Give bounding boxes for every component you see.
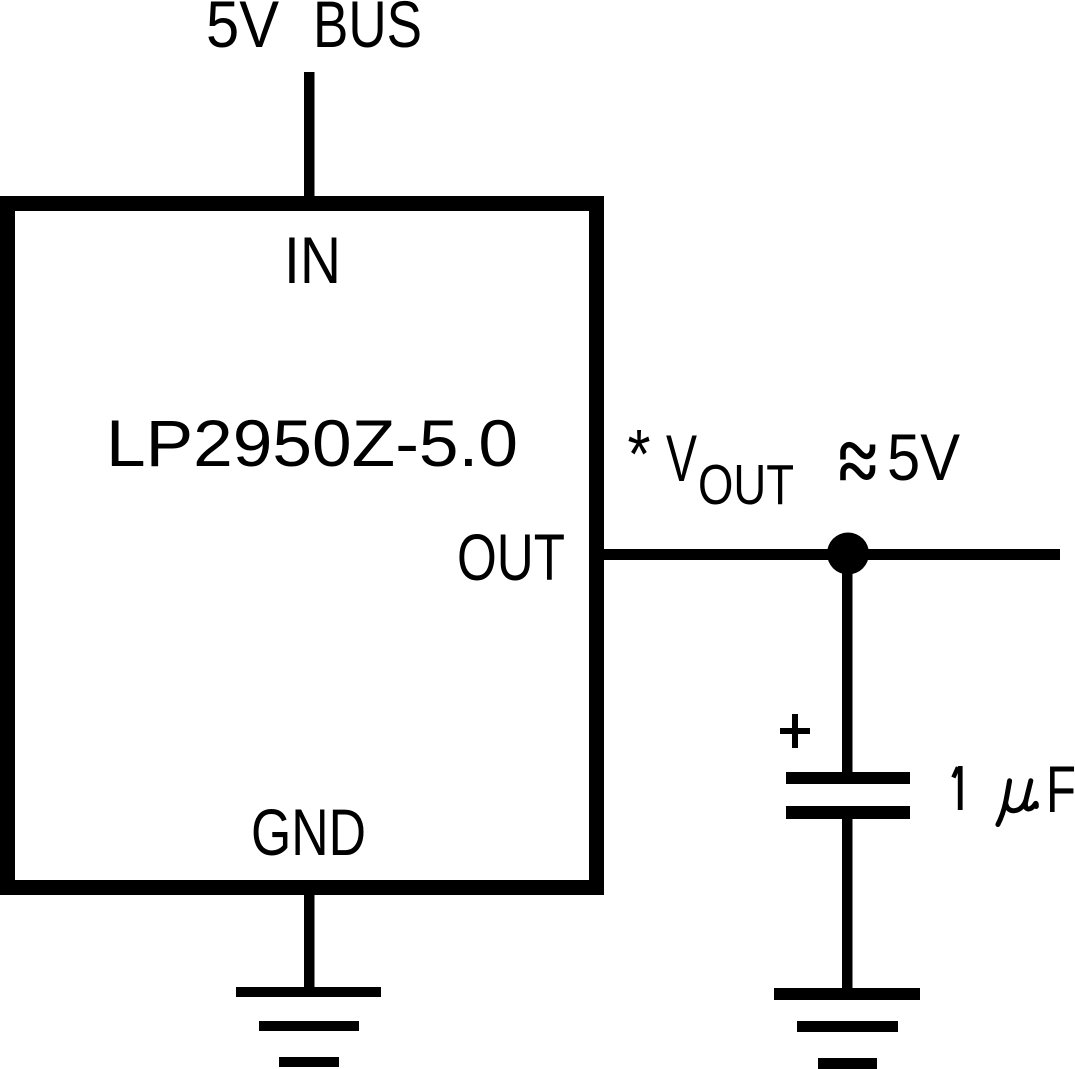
capacitor C1 polarity plus sign — [780, 714, 810, 748]
value label mu of 1 uF — [998, 781, 1036, 825]
svg-text:5V: 5V — [887, 420, 960, 494]
svg-text:BUS: BUS — [313, 0, 422, 61]
svg-text:GND: GND — [251, 795, 366, 869]
svg-text:OUT: OUT — [457, 520, 565, 594]
wire node VOUT to capacitor C1 — [842, 553, 853, 773]
wire OUT pin to node VOUT — [604, 549, 1060, 560]
ground symbol below capacitor C1 — [774, 988, 920, 1069]
svg-text:OUT: OUT — [698, 453, 794, 517]
wire 5V bus to IN pin — [304, 72, 315, 196]
value label digit 1 of 1 uF — [953, 766, 962, 810]
junction node VOUT — [827, 533, 869, 575]
label approx sign — [843, 445, 873, 481]
wire capacitor C1 to ground — [842, 817, 853, 994]
net label 5V BUS — [206, 0, 422, 61]
wire GND pin to ground — [304, 895, 315, 992]
svg-text:IN: IN — [284, 223, 341, 297]
ground symbol below regulator GND — [236, 987, 381, 1067]
regulator U1 LP2950Z-5.0 box — [8, 204, 597, 888]
capacitor C1 top plate — [786, 772, 910, 784]
svg-text:5V: 5V — [206, 0, 279, 61]
svg-text:LP2950Z-5.0: LP2950Z-5.0 — [106, 406, 518, 480]
svg-text:F: F — [1046, 752, 1075, 826]
svg-text:V: V — [666, 421, 697, 495]
capacitor C1 bottom plate — [786, 806, 910, 819]
svg-text:*: * — [628, 415, 651, 493]
